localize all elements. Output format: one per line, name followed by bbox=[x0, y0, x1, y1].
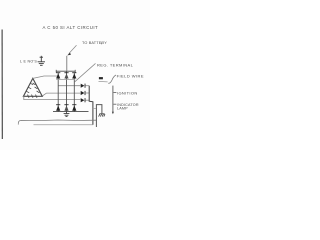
svg-text:IGNITION: IGNITION bbox=[117, 90, 138, 95]
svg-text:+: + bbox=[101, 41, 104, 46]
svg-text:LAMP: LAMP bbox=[117, 107, 128, 111]
svg-text:A C 50 SI ALT CIRCUIT: A C 50 SI ALT CIRCUIT bbox=[43, 25, 99, 30]
svg-text:FIELD WIRE: FIELD WIRE bbox=[117, 74, 144, 79]
svg-text:L E NO'S: L E NO'S bbox=[20, 59, 37, 63]
svg-text:TO BATTERY: TO BATTERY bbox=[82, 41, 107, 45]
svg-text:REG. TERMINAL: REG. TERMINAL bbox=[97, 63, 134, 68]
